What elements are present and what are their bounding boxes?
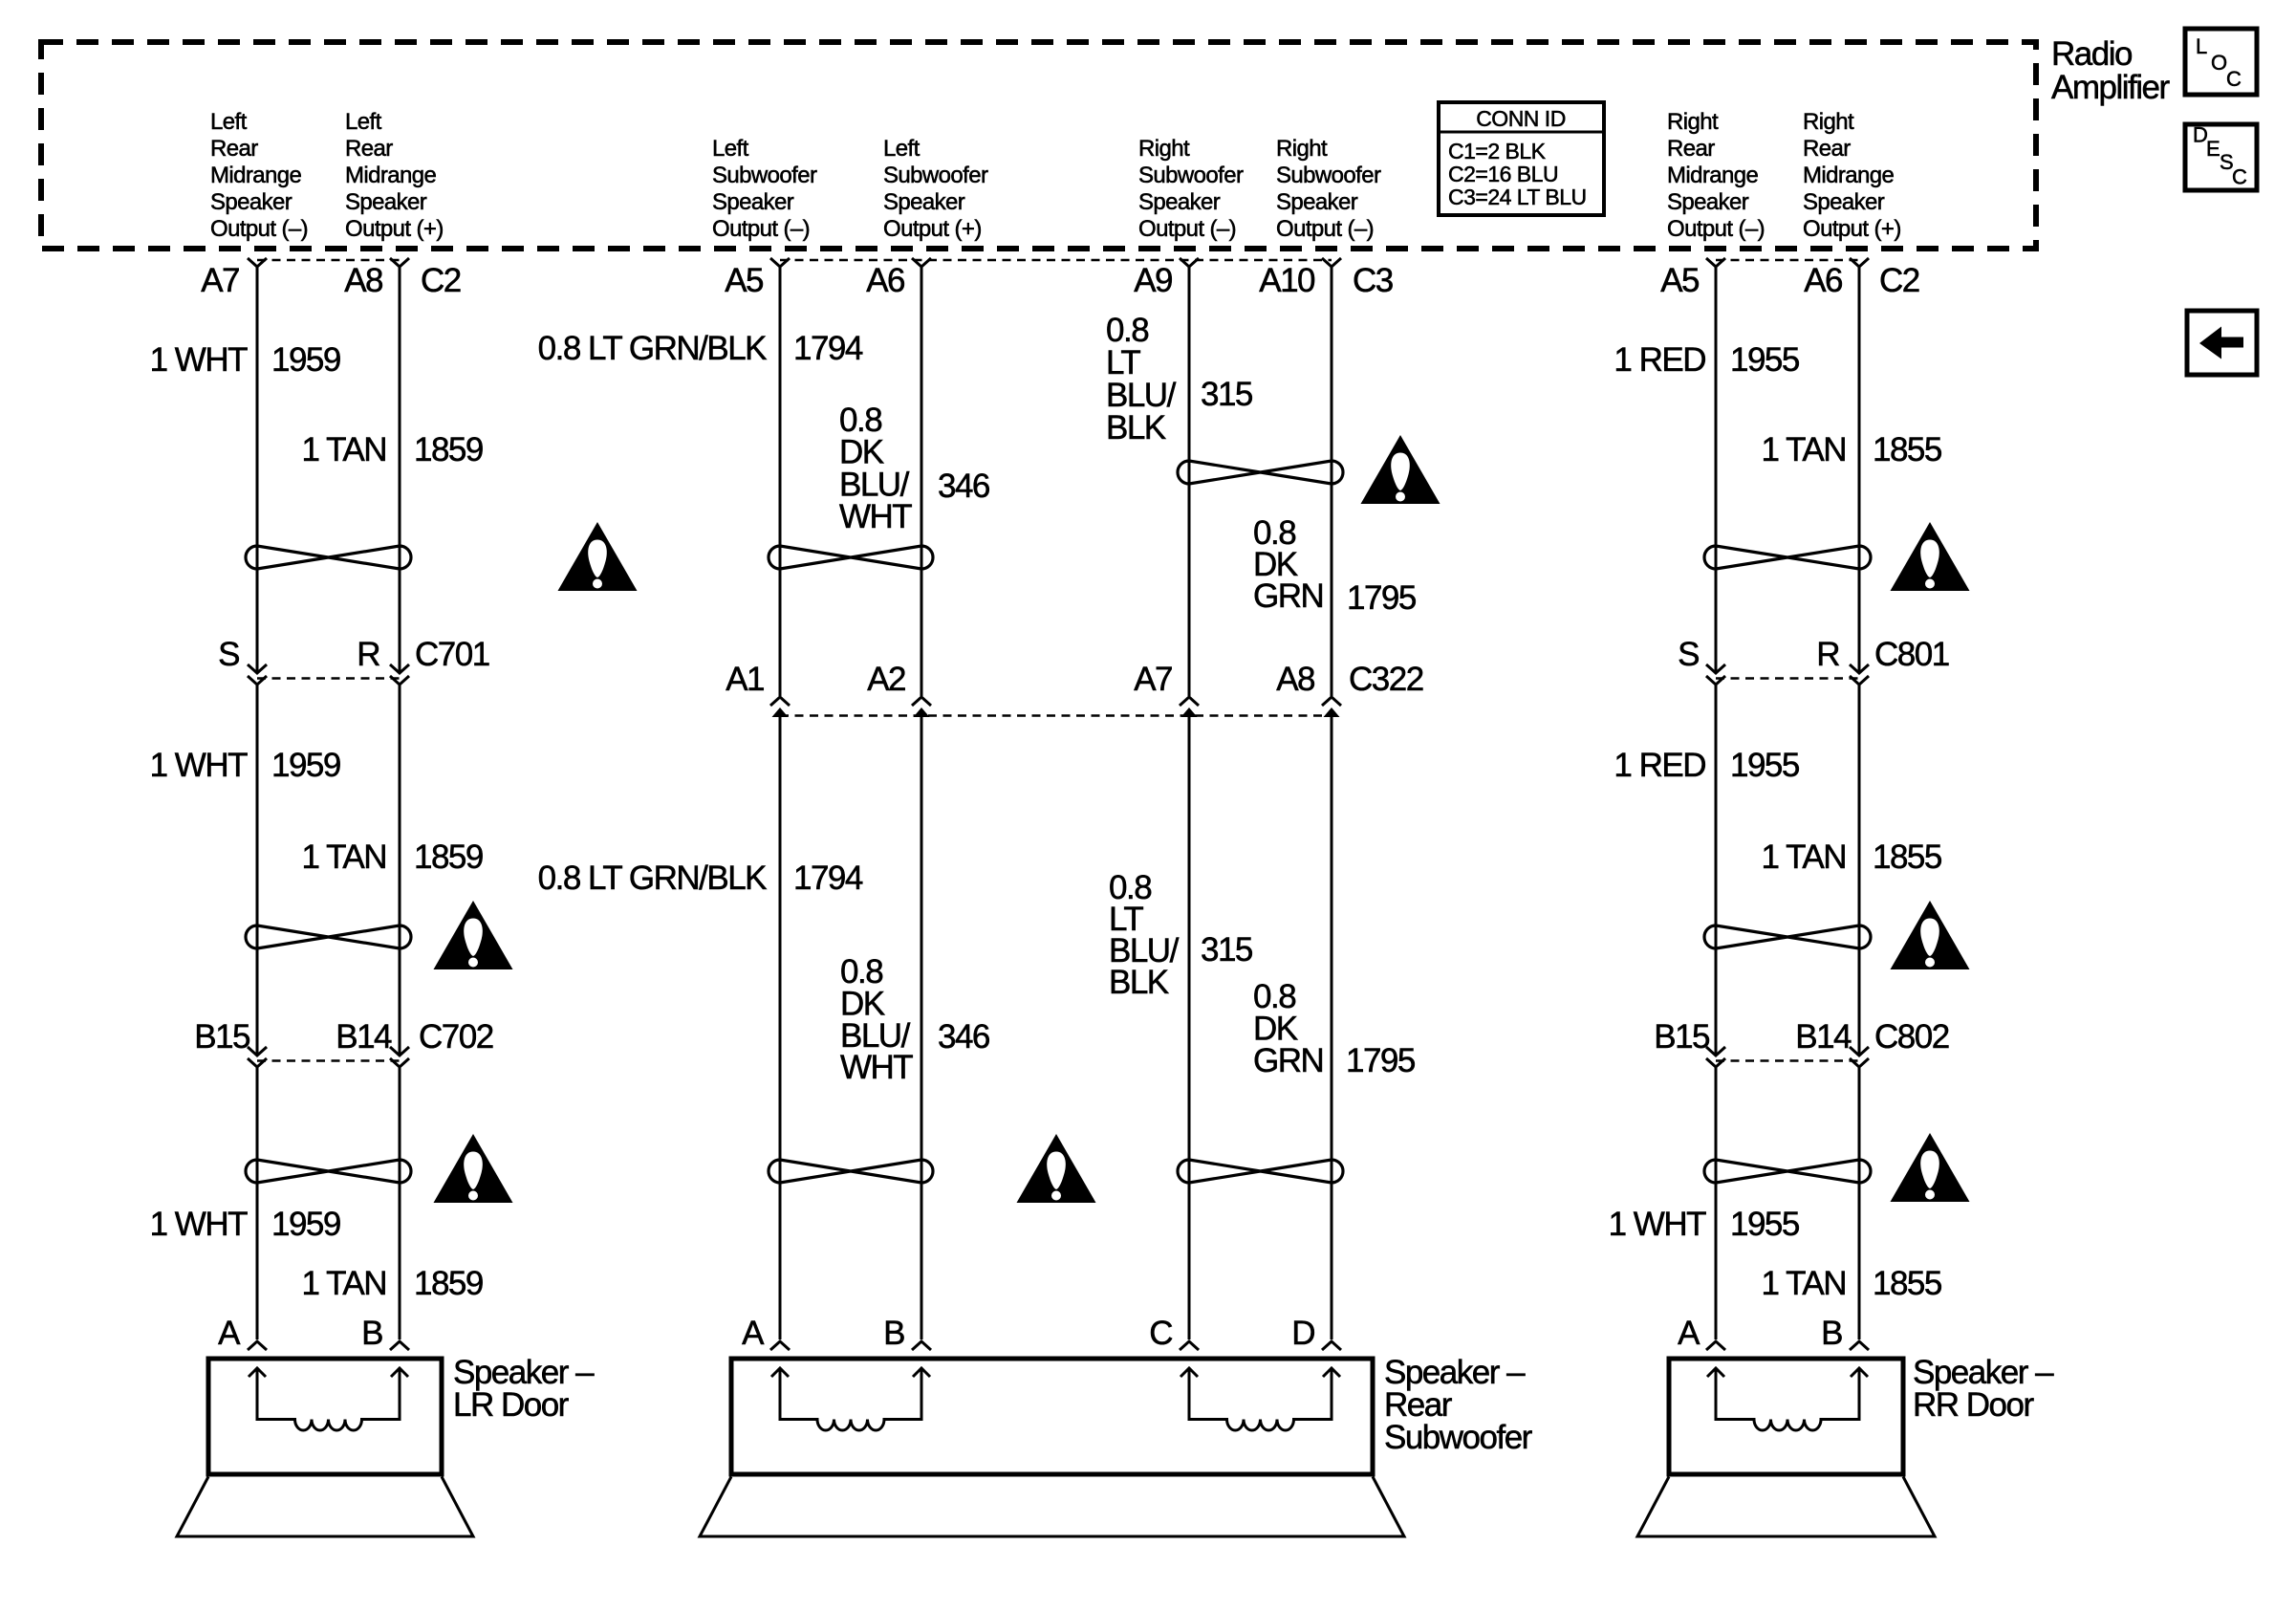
svg-text:Output (–): Output (–) — [1138, 216, 1236, 242]
label Speaker - Rear Subwoofer — [1384, 1354, 1533, 1456]
svg-text:Output (+): Output (+) — [345, 216, 444, 242]
twisted pair symbol group4 row2 — [1704, 925, 1871, 948]
svg-text:Speaker: Speaker — [1803, 189, 1885, 215]
svg-text:Subwoofer: Subwoofer — [883, 163, 988, 188]
svg-text:Rear: Rear — [1667, 136, 1715, 162]
wire 1855 TAN segment2 (C801 to C802) — [1858, 685, 1861, 1055]
wire 1955 RED segment1 (A5 to C801 S) — [1715, 267, 1718, 672]
wire 1955 RED segment2 (C801 to C802) — [1715, 685, 1718, 1055]
wire start chevron pin A6 — [912, 258, 931, 267]
wire restart chevron below C701 S — [248, 676, 267, 685]
pin label A6 (left sub) — [866, 262, 904, 299]
twisted pair symbol group2 row1 — [769, 546, 933, 569]
svg-text:Midrange: Midrange — [210, 163, 302, 188]
wire end chevron above C322 A2 — [912, 697, 931, 706]
arrow into C702 pin B15 — [248, 1047, 267, 1056]
circuit number 1959 s3 — [271, 1206, 340, 1243]
svg-text:BLK: BLK — [1106, 409, 1166, 446]
svg-text:Speaker: Speaker — [1276, 189, 1358, 215]
svg-text:L: L — [2196, 34, 2207, 58]
svg-text:Right: Right — [1276, 136, 1328, 162]
pin label A6 (right mid) — [1804, 262, 1842, 299]
wire 315 LT BLU/BLK segment2 (C322 to subwoofer) — [1188, 716, 1191, 1339]
connector label C322 — [1349, 661, 1423, 698]
wire start chevron pin A5 right — [1706, 258, 1725, 267]
svg-text:Left: Left — [883, 136, 921, 162]
solid arrow up at C322 A7 — [1181, 708, 1198, 717]
label Left Rear Midrange Speaker Output (-) — [210, 109, 308, 242]
solid arrow up at C322 A2 — [914, 708, 930, 717]
svg-text:Midrange: Midrange — [345, 163, 437, 188]
svg-text:1 WHT: 1 WHT — [150, 747, 249, 784]
svg-text:Left: Left — [712, 136, 749, 162]
pin label B15 C802 — [1654, 1018, 1709, 1056]
arrow into C801 pin S — [1706, 664, 1725, 673]
twisted pair symbol group1 row3 — [246, 1160, 411, 1183]
icon LOC box — [2185, 29, 2257, 95]
icon DESC box — [2185, 123, 2257, 191]
wire start chevron pin A7 — [248, 258, 267, 267]
svg-text:A: A — [1678, 1315, 1700, 1352]
wire label 1 TAN s1 — [302, 431, 386, 468]
svg-text:A5: A5 — [725, 262, 763, 299]
svg-text:1 WHT: 1 WHT — [150, 341, 249, 379]
connector label C701 — [415, 636, 489, 673]
wire label 1 TAN right s2 — [1762, 838, 1846, 876]
svg-text:Rear: Rear — [345, 136, 393, 162]
svg-text:1795: 1795 — [1346, 1042, 1415, 1079]
wire start chevron pin A5 — [770, 258, 790, 267]
svg-text:Speaker: Speaker — [1667, 189, 1749, 215]
pin label A7 — [201, 262, 239, 299]
speaker LR Door voice coil — [249, 1368, 408, 1430]
wire restart chevron below C801 S — [1706, 676, 1725, 685]
pin label B subwoofer — [883, 1315, 904, 1352]
svg-text:Speaker: Speaker — [345, 189, 427, 215]
connector C2 amp dashed line (group4) — [1716, 259, 1859, 262]
svg-text:Left: Left — [345, 109, 382, 135]
pin label C subwoofer — [1149, 1315, 1172, 1352]
connector C701 dashed line — [257, 677, 400, 680]
svg-text:1955: 1955 — [1730, 1206, 1799, 1243]
wire 315 LT BLU/BLK segment1 (A9 to C322 A7) — [1188, 267, 1191, 696]
svg-text:1 TAN: 1 TAN — [1762, 1265, 1846, 1302]
connector C702 dashed line — [257, 1059, 400, 1062]
wire 1959 WHT segment2 (C701 to C702) — [256, 685, 259, 1055]
svg-text:GRN: GRN — [1253, 1042, 1323, 1079]
speaker LR Door cone trapezoid — [177, 1477, 473, 1537]
pin label A7 C322 — [1134, 661, 1172, 698]
wire label 1 WHT s1 — [150, 341, 249, 379]
wire label 1 TAN right s3 — [1762, 1265, 1846, 1302]
svg-text:C701: C701 — [415, 636, 489, 673]
svg-text:B: B — [883, 1315, 904, 1352]
svg-text:1795: 1795 — [1347, 579, 1416, 617]
svg-text:1959: 1959 — [271, 341, 340, 379]
wire label 1 RED s1 — [1614, 341, 1705, 379]
label Right Subwoofer Speaker Output (-) A9 — [1138, 136, 1244, 242]
circuit number 346 s1 — [938, 468, 989, 505]
svg-text:1794: 1794 — [793, 330, 863, 367]
svg-text:A8: A8 — [1276, 661, 1314, 698]
svg-text:Speaker: Speaker — [1138, 189, 1221, 215]
pin label A5 (left sub) — [725, 262, 763, 299]
circuit number 1794 s1 — [793, 330, 863, 367]
pin label A10 — [1259, 262, 1315, 299]
wire end arrow at subwoofer pin A — [770, 1341, 790, 1350]
svg-text:1855: 1855 — [1873, 1265, 1941, 1302]
wire 346 DK BLU/WHT segment1 (A6 to C322 A2) — [921, 267, 923, 696]
svg-text:A1: A1 — [726, 661, 764, 698]
svg-text:0.8 LT GRN/BLK: 0.8 LT GRN/BLK — [538, 330, 768, 367]
wire 1795 DK GRN segment1 (A10 to C322 A8) — [1331, 267, 1333, 696]
wire 1794 LT GRN/BLK segment2 (C322 to subwoofer) — [779, 716, 782, 1339]
wire label 0.8 DK BLU/WHT s2 — [840, 953, 913, 1086]
wire end arrow at subwoofer pin D — [1322, 1341, 1341, 1350]
label Radio Amplifier line2 — [2051, 69, 2170, 106]
svg-text:Output (–): Output (–) — [712, 216, 810, 242]
wire label 1 TAN s3 — [302, 1265, 386, 1302]
arrow into C701 pin S — [248, 664, 267, 673]
connector label C801 — [1874, 636, 1949, 673]
svg-text:RR Door: RR Door — [1913, 1386, 2034, 1424]
connector C802 dashed line — [1716, 1059, 1859, 1062]
svg-text:1 TAN: 1 TAN — [302, 838, 386, 876]
svg-text:C702: C702 — [419, 1018, 493, 1056]
svg-text:A5: A5 — [1660, 262, 1699, 299]
svg-text:CONN ID: CONN ID — [1476, 106, 1566, 131]
svg-text:1794: 1794 — [793, 860, 863, 897]
svg-text:346: 346 — [938, 1018, 989, 1056]
circuit number 1959 s2 — [271, 747, 340, 784]
circuit number 1855 s1 — [1873, 431, 1941, 468]
pin label S C701 — [218, 636, 239, 673]
arrow into C802 pin B15 — [1706, 1047, 1725, 1056]
svg-text:Right: Right — [1803, 109, 1854, 135]
svg-text:A10: A10 — [1259, 262, 1315, 299]
svg-text:Right: Right — [1667, 109, 1719, 135]
svg-text:C2=16 BLU: C2=16 BLU — [1448, 162, 1558, 186]
pin label B speaker LR — [361, 1315, 382, 1352]
wire end chevron above C322 A1 — [770, 697, 790, 706]
wire label 0.8 LT BLU/BLK s1 — [1106, 312, 1177, 446]
svg-text:Subwoofer: Subwoofer — [1276, 163, 1381, 188]
svg-text:WHT: WHT — [839, 498, 912, 535]
svg-text:A: A — [742, 1315, 765, 1352]
svg-text:1 RED: 1 RED — [1614, 341, 1705, 379]
arrow into C702 pin B14 — [390, 1047, 409, 1056]
solid arrow up at C322 A1 — [772, 708, 789, 717]
pin label B speaker RR — [1821, 1315, 1842, 1352]
svg-text:C1=2 BLK: C1=2 BLK — [1448, 139, 1547, 163]
svg-text:A8: A8 — [344, 262, 382, 299]
circuit number 1855 s2 — [1873, 838, 1941, 876]
wire end arrow at subwoofer pin B — [912, 1341, 931, 1350]
svg-text:S: S — [1678, 636, 1699, 673]
label Right Rear Midrange Speaker Output (-) — [1667, 109, 1765, 242]
arrow into C802 pin B14 — [1850, 1047, 1869, 1056]
svg-text:Output (–): Output (–) — [1667, 216, 1765, 242]
wire end arrow at speaker pin A (LR) — [248, 1341, 267, 1350]
svg-text:LR Door: LR Door — [453, 1386, 570, 1424]
circuit number 315 s2 — [1201, 931, 1252, 969]
svg-text:C: C — [2226, 67, 2242, 91]
twisted pair symbol group1 row1 — [246, 546, 411, 569]
circuit number 315 s1 — [1201, 376, 1252, 413]
arrow into C801 pin R — [1850, 664, 1869, 673]
svg-text:C3=24 LT BLU: C3=24 LT BLU — [1448, 185, 1587, 209]
speaker RR Door voice coil — [1707, 1368, 1868, 1430]
warning triangle near group1 row1 — [558, 522, 638, 591]
wire restart chevron below C802 B15 — [1706, 1058, 1725, 1067]
svg-text:A7: A7 — [1134, 661, 1172, 698]
svg-text:1 WHT: 1 WHT — [1609, 1206, 1707, 1243]
pin label A8 — [344, 262, 382, 299]
pin label R C701 — [357, 636, 379, 673]
wire 1855 TAN segment1 (A6 to C801 R) — [1858, 267, 1861, 672]
svg-text:Subwoofer: Subwoofer — [1384, 1419, 1533, 1456]
svg-text:WHT: WHT — [840, 1049, 913, 1086]
wire label 0.8 LT GRN/BLK s1 — [538, 330, 768, 367]
connector label C2 (left) — [421, 262, 461, 299]
wire label 1 RED s2 — [1614, 747, 1705, 784]
svg-text:Output (+): Output (+) — [1803, 216, 1901, 242]
circuit number 1795 s1 — [1347, 579, 1416, 617]
wire label 1 TAN s2 — [302, 838, 386, 876]
svg-text:1859: 1859 — [414, 1265, 483, 1302]
svg-text:Right: Right — [1138, 136, 1190, 162]
svg-text:C2: C2 — [1879, 262, 1919, 299]
wire label 0.8 LT GRN/BLK s2 — [538, 860, 768, 897]
wire restart chevron below C801 R — [1850, 676, 1869, 685]
wire label 1 WHT right s3 — [1609, 1206, 1707, 1243]
label Right Rear Midrange Speaker Output (+) — [1803, 109, 1901, 242]
wire label 1 WHT s2 — [150, 747, 249, 784]
svg-text:O: O — [2211, 51, 2227, 75]
warning triangle group4 row2 — [1891, 901, 1970, 969]
wire start chevron pin A6 right — [1850, 258, 1869, 267]
svg-text:Speaker: Speaker — [210, 189, 292, 215]
circuit number 1794 s2 — [793, 860, 863, 897]
wire label 0.8 DK BLU/WHT s1 — [839, 402, 912, 535]
wire 1859 TAN segment1 (A8 to C701 R) — [399, 267, 401, 672]
speaker Rear Subwoofer cone trapezoid — [700, 1477, 1404, 1537]
pin label D subwoofer — [1291, 1315, 1314, 1352]
wire restart chevron below C702 B14 — [390, 1058, 409, 1067]
svg-text:S: S — [218, 636, 239, 673]
svg-text:B14: B14 — [1795, 1018, 1852, 1056]
subwoofer right voice coil — [1180, 1368, 1340, 1430]
twisted pair symbol group4 row3 — [1704, 1160, 1871, 1183]
svg-text:A9: A9 — [1134, 262, 1172, 299]
svg-text:1859: 1859 — [414, 838, 483, 876]
svg-text:Rear: Rear — [1803, 136, 1851, 162]
svg-text:C322: C322 — [1349, 661, 1423, 698]
circuit number 1955 s2 — [1730, 747, 1799, 784]
connector C2 amp dashed line (group1) — [257, 259, 400, 262]
connector label C702 — [419, 1018, 493, 1056]
pin label S C801 — [1678, 636, 1699, 673]
pin label A speaker LR — [218, 1315, 241, 1352]
circuit number 1959 s1 — [271, 341, 340, 379]
svg-text:GRN: GRN — [1253, 577, 1323, 615]
svg-text:1959: 1959 — [271, 747, 340, 784]
svg-text:1859: 1859 — [414, 431, 483, 468]
svg-text:Subwoofer: Subwoofer — [712, 163, 817, 188]
svg-text:346: 346 — [938, 468, 989, 505]
pin label B14 C802 — [1795, 1018, 1852, 1056]
circuit number 1859 s3 — [414, 1265, 483, 1302]
svg-text:R: R — [357, 636, 379, 673]
pin label A5 (right mid) — [1660, 262, 1699, 299]
connector C3/C2 amp dashed line (groups2-3) — [780, 259, 1332, 262]
wire label 0.8 DK GRN s2 — [1253, 978, 1323, 1079]
svg-text:A7: A7 — [201, 262, 239, 299]
speaker LR Door box — [208, 1359, 442, 1474]
wire end arrow at speaker pin B (RR) — [1850, 1341, 1869, 1350]
wire 346 DK BLU/WHT segment2 (C322 to subwoofer) — [921, 716, 923, 1339]
svg-text:1 TAN: 1 TAN — [302, 1265, 386, 1302]
svg-text:C3: C3 — [1353, 262, 1393, 299]
svg-text:B14: B14 — [336, 1018, 392, 1056]
wire label 0.8 DK GRN s1 — [1253, 514, 1323, 615]
wire 1794 LT GRN/BLK segment1 (A5 to C322 A1) — [779, 267, 782, 696]
icon back arrow box — [2187, 311, 2257, 375]
label Right Subwoofer Speaker Output (-) A10 — [1276, 136, 1381, 242]
svg-text:C2: C2 — [421, 262, 461, 299]
warning triangle between groups2-3 row3 — [1017, 1134, 1096, 1203]
wire 1795 DK GRN segment2 (C322 to subwoofer) — [1331, 716, 1333, 1339]
label Left Rear Midrange Speaker Output (+) — [345, 109, 444, 242]
pin label B15 C702 — [194, 1018, 249, 1056]
twisted pair symbol group4 row1 — [1704, 546, 1871, 569]
connector label C2 (right) — [1879, 262, 1919, 299]
svg-text:Speaker: Speaker — [712, 189, 794, 215]
svg-text:C801: C801 — [1874, 636, 1949, 673]
circuit number 1955 s3 — [1730, 1206, 1799, 1243]
circuit number 1859 s2 — [414, 838, 483, 876]
circuit number 346 s2 — [938, 1018, 989, 1056]
svg-text:0.8 LT GRN/BLK: 0.8 LT GRN/BLK — [538, 860, 768, 897]
svg-text:Output (–): Output (–) — [210, 216, 308, 242]
svg-text:Output (+): Output (+) — [883, 216, 982, 242]
svg-text:C802: C802 — [1874, 1018, 1949, 1056]
CONN ID table — [1439, 102, 1604, 215]
svg-text:E: E — [2206, 137, 2220, 161]
wire label 0.8 LT BLU/BLK s2 — [1109, 869, 1180, 1001]
svg-text:1855: 1855 — [1873, 431, 1941, 468]
svg-text:315: 315 — [1201, 931, 1252, 969]
svg-text:1855: 1855 — [1873, 838, 1941, 876]
svg-text:A6: A6 — [1804, 262, 1842, 299]
wire 1859 TAN segment2 (C701 to C702) — [399, 685, 401, 1055]
svg-text:B15: B15 — [194, 1018, 249, 1056]
pin label A9 — [1134, 262, 1172, 299]
connector label C3 — [1353, 262, 1393, 299]
label Speaker - RR Door — [1913, 1354, 2054, 1424]
wire 1859 TAN segment3 (C702 to speaker) — [399, 1067, 401, 1339]
svg-text:1 TAN: 1 TAN — [302, 431, 386, 468]
wire start chevron pin A9 — [1180, 258, 1199, 267]
svg-text:Output (–): Output (–) — [1276, 216, 1374, 242]
svg-text:Rear: Rear — [210, 136, 258, 162]
svg-text:Radio: Radio — [2051, 35, 2132, 73]
circuit number 1955 s1 — [1730, 341, 1799, 379]
arrow into C701 pin R — [390, 664, 409, 673]
pin label A1 C322 — [726, 661, 764, 698]
svg-text:C: C — [2232, 165, 2247, 189]
svg-text:1 TAN: 1 TAN — [1762, 431, 1846, 468]
label Speaker - LR Door — [453, 1354, 595, 1424]
subwoofer left voice coil — [771, 1368, 930, 1430]
twisted pair symbol group2 row3 — [769, 1160, 933, 1183]
svg-text:Midrange: Midrange — [1803, 163, 1895, 188]
pin label B14 C702 — [336, 1018, 392, 1056]
twisted pair symbol group1 row2 — [246, 925, 411, 948]
svg-text:1955: 1955 — [1730, 341, 1799, 379]
wire end arrow at subwoofer pin C — [1180, 1341, 1199, 1350]
svg-text:Midrange: Midrange — [1667, 163, 1759, 188]
wire start chevron pin A10 — [1322, 258, 1341, 267]
label Left Subwoofer Speaker Output (+) — [883, 136, 988, 242]
svg-text:B15: B15 — [1654, 1018, 1709, 1056]
circuit number 1855 s3 — [1873, 1265, 1941, 1302]
svg-text:Left: Left — [210, 109, 248, 135]
svg-text:R: R — [1816, 636, 1839, 673]
solid arrow up at C322 A8 — [1324, 708, 1340, 717]
svg-text:1 RED: 1 RED — [1614, 747, 1705, 784]
connector C801 dashed line — [1716, 677, 1859, 680]
svg-text:315: 315 — [1201, 376, 1252, 413]
pin label A subwoofer — [742, 1315, 765, 1352]
svg-text:A6: A6 — [866, 262, 904, 299]
svg-text:B: B — [361, 1315, 382, 1352]
warning triangle group3 row1 — [1361, 435, 1440, 504]
radio amplifier dashed outline box — [41, 42, 2036, 249]
warning triangle group1 row2 — [434, 901, 513, 969]
wire end chevron above C322 A7 — [1180, 697, 1199, 706]
svg-text:Amplifier: Amplifier — [2051, 69, 2170, 106]
twisted pair symbol group3 row1 — [1178, 461, 1343, 484]
warning triangle group4 row1 — [1891, 522, 1970, 591]
svg-text:Speaker: Speaker — [883, 189, 965, 215]
warning triangle group4 row3 — [1891, 1133, 1970, 1202]
svg-text:A: A — [218, 1315, 241, 1352]
twisted pair symbol group3 row3 — [1178, 1160, 1343, 1183]
svg-text:A2: A2 — [867, 661, 905, 698]
svg-text:C: C — [1149, 1315, 1172, 1352]
wire end arrow at speaker pin B (LR) — [390, 1341, 409, 1350]
label Left Subwoofer Speaker Output (-) — [712, 136, 817, 242]
label Radio Amplifier line1 — [2051, 35, 2132, 73]
circuit number 1859 s1 — [414, 431, 483, 468]
pin label A2 C322 — [867, 661, 905, 698]
wire 1855 TAN segment3 (C802 to speaker) — [1858, 1067, 1861, 1339]
speaker RR Door cone trapezoid — [1637, 1477, 1935, 1537]
circuit number 1795 s2 — [1346, 1042, 1415, 1079]
wire end arrow at speaker pin A (RR) — [1706, 1341, 1725, 1350]
wire 1955 WHT segment3 (C802 to speaker) — [1715, 1067, 1718, 1339]
speaker Rear Subwoofer box — [731, 1359, 1373, 1474]
svg-text:1955: 1955 — [1730, 747, 1799, 784]
pin label A speaker RR — [1678, 1315, 1700, 1352]
svg-text:Subwoofer: Subwoofer — [1138, 163, 1244, 188]
pin label A8 C322 — [1276, 661, 1314, 698]
connector C322 dashed line — [780, 714, 1332, 717]
wire 1959 WHT segment1 (A7 to C701 S) — [256, 267, 259, 672]
wire restart chevron below C802 B14 — [1850, 1058, 1869, 1067]
svg-text:B: B — [1821, 1315, 1842, 1352]
